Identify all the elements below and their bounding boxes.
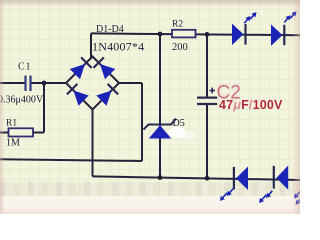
wire R1 to node A <box>33 132 44 134</box>
wire D5 vertical <box>159 34 161 178</box>
svg-text:C1: C1 <box>18 62 31 73</box>
LED2 top-right <box>271 11 297 46</box>
LED3 bottom-left <box>220 167 248 202</box>
wire node A down to R1 <box>43 83 45 133</box>
diode D3 (bottom-left) <box>67 84 89 106</box>
wire C2 bottom segment <box>206 105 208 178</box>
svg-text:1M: 1M <box>6 138 20 149</box>
resistor R1 <box>9 128 34 136</box>
junction D5 top <box>158 32 163 37</box>
wire C1 to bridge left vertex <box>31 82 66 84</box>
wire AC input to C1 <box>0 82 25 84</box>
junction D5 bottom <box>158 175 163 180</box>
wire bridge bottom vertical <box>92 110 94 177</box>
wire AC2 bottom horizontal <box>0 159 142 161</box>
junction C2 top <box>205 32 210 37</box>
diode D1 (top-left) <box>70 57 92 79</box>
wire C2 top segment <box>206 34 208 96</box>
diode D2 (top-right) <box>93 57 115 79</box>
svg-text:200: 200 <box>172 42 188 53</box>
plus sign of C2 <box>210 88 216 94</box>
wire AC input to R1 <box>0 132 9 134</box>
decorative blurred watermark band and bottom fade (behind schematic) <box>0 182 300 196</box>
LED1 top-left <box>232 12 257 45</box>
zener diode D5 <box>144 119 177 139</box>
wire bottom DC rail <box>93 176 301 180</box>
white blob artifact near D5 <box>169 127 196 141</box>
diode D4 (bottom-right) <box>96 84 118 106</box>
wire top DC rail <box>91 33 300 35</box>
svg-text:R1: R1 <box>6 119 17 129</box>
wire AC2 vertical <box>141 83 143 161</box>
wire bridge right vertex to corner <box>119 82 142 84</box>
capacitor C1 <box>26 76 31 92</box>
node A junction C1/R1 <box>42 81 47 86</box>
svg-text:47μF/100V: 47μF/100V <box>219 98 283 112</box>
capacitor C2 <box>197 98 217 104</box>
svg-text:R2: R2 <box>172 20 183 30</box>
wire bridge top vertical <box>90 33 92 57</box>
LED4 bottom-right <box>259 166 288 204</box>
resistor R2 <box>172 30 196 38</box>
svg-text:1N4007*4: 1N4007*4 <box>92 40 144 54</box>
svg-text:D1-D4: D1-D4 <box>96 24 124 35</box>
junction C2 bottom <box>205 176 210 181</box>
bridge diamond outline <box>66 57 119 110</box>
edge vignettes (decorative) <box>0 0 300 7</box>
partial arrows of off-screen LED5 <box>294 192 301 205</box>
svg-text:0.36μ400V: 0.36μ400V <box>0 95 44 106</box>
